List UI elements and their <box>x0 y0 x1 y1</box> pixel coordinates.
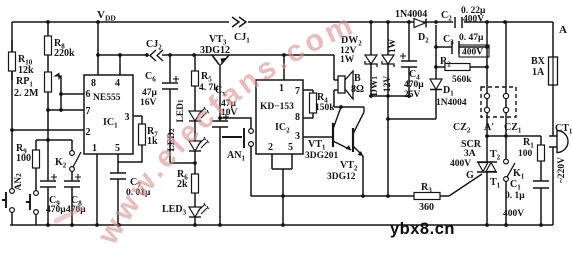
wire RP1 wiper to pins 6,7 <box>59 76 63 112</box>
wire R9-K2 link <box>36 139 72 141</box>
label CZ2 <box>453 122 471 135</box>
node bottom rail junction dots <box>46 223 543 227</box>
label T1 <box>490 177 501 190</box>
capacitor Cx <box>212 64 238 225</box>
svg-text:25V: 25V <box>404 90 421 100</box>
diode D2 <box>395 9 429 45</box>
svg-text:5: 5 <box>288 142 293 153</box>
svg-text:A′: A′ <box>484 122 494 133</box>
svg-text:C3: C3 <box>443 34 454 47</box>
svg-text:R2: R2 <box>440 56 451 69</box>
wire fuse to plug <box>552 85 554 136</box>
relay contact CJ2 <box>146 39 163 61</box>
wire LED1-LED2 <box>194 121 196 141</box>
svg-text:C1: C1 <box>510 179 521 192</box>
wire top rail (right of CJ1) <box>248 21 553 23</box>
svg-text:CJ1: CJ1 <box>234 32 250 45</box>
svg-text:ybx8.cn: ybx8.cn <box>390 220 455 238</box>
wire IC2 pins 2,5 to ground line <box>272 154 292 225</box>
svg-text:D1: D1 <box>443 85 454 98</box>
wire VDD drop to IC1 pin8 <box>97 22 99 75</box>
svg-text:BX: BX <box>531 56 546 67</box>
svg-text:5: 5 <box>115 143 120 154</box>
switch K1 <box>504 159 525 225</box>
svg-text:R5: R5 <box>201 71 212 84</box>
svg-text:1: 1 <box>279 83 284 94</box>
resistor R8 <box>45 22 76 59</box>
wire A-prime line <box>487 136 541 145</box>
svg-text:2: 2 <box>268 142 273 153</box>
svg-text:1N4004: 1N4004 <box>436 98 467 108</box>
svg-text:VDD: VDD <box>97 9 116 23</box>
svg-text:RP1: RP1 <box>16 76 33 89</box>
wire top VDD rail (left of CJ1) <box>12 21 229 23</box>
svg-text:1W: 1W <box>340 55 355 65</box>
svg-text:8: 8 <box>91 78 96 89</box>
svg-text:VT1: VT1 <box>308 139 326 152</box>
capacitor C4 <box>400 22 424 100</box>
wire RP1 column down to C9 <box>46 110 50 225</box>
svg-text:470μ: 470μ <box>46 205 66 215</box>
wire zener-C4 bottom bar <box>369 94 411 98</box>
transistor VT3 <box>200 34 230 65</box>
watermark tail stroke <box>56 208 82 221</box>
svg-text:DW1: DW1 <box>370 76 380 96</box>
resistor R7 <box>118 116 158 162</box>
label A-prime <box>484 122 494 133</box>
label T2 <box>490 149 501 162</box>
transistor VT1 <box>305 107 351 161</box>
capacitor C2 <box>441 6 486 29</box>
triac SCR <box>450 139 497 181</box>
wire socket right column <box>504 22 508 159</box>
svg-text:NE555: NE555 <box>93 93 121 103</box>
svg-text:CZ2: CZ2 <box>453 122 471 135</box>
resistor R10 <box>9 40 35 80</box>
resistor R9 <box>16 140 40 189</box>
wire IC1 pin1 to ground <box>96 154 98 225</box>
svg-text:12V: 12V <box>383 76 393 93</box>
wire IC2 pin1 drop <box>283 55 285 80</box>
op-amp IC1 NE555 box <box>84 75 133 154</box>
svg-text:~220V: ~220V <box>557 157 567 183</box>
pushbutton AN1 <box>218 116 253 196</box>
svg-text:560k: 560k <box>452 75 472 85</box>
svg-text:12k: 12k <box>18 65 34 76</box>
svg-text:150k: 150k <box>315 103 335 113</box>
transistor VT2 <box>327 107 364 182</box>
svg-text:AN1: AN1 <box>227 150 245 163</box>
wire D1 to DW column <box>388 90 436 119</box>
svg-text:VT2: VT2 <box>340 160 358 173</box>
svg-text:470μ: 470μ <box>404 80 424 90</box>
svg-text:LED3: LED3 <box>162 204 187 217</box>
wire LED3 to ground <box>194 217 196 225</box>
wire R6-LED3 <box>194 193 196 207</box>
svg-text:B: B <box>354 73 361 84</box>
svg-text:100: 100 <box>518 149 533 159</box>
svg-text:4: 4 <box>115 78 120 89</box>
socket dashed box <box>481 87 516 117</box>
wire plug to ground rail <box>552 147 554 225</box>
svg-text:6: 6 <box>86 89 91 100</box>
diode D1 <box>430 79 467 108</box>
LED LED1 <box>176 99 209 123</box>
LED LED3 <box>162 203 209 217</box>
svg-text:1: 1 <box>92 143 97 154</box>
wire LED2 to R6 node <box>193 151 197 174</box>
wire rail-2 corner to speaker <box>334 55 338 107</box>
svg-text:400V: 400V <box>462 48 483 58</box>
wire collectors node to speaker <box>334 105 364 109</box>
resistor R4 <box>303 90 335 118</box>
svg-text:2: 2 <box>86 127 91 138</box>
zener DW1 <box>370 22 398 96</box>
svg-text:8Ω: 8Ω <box>351 84 364 95</box>
svg-text:3DG12: 3DG12 <box>327 172 356 182</box>
svg-text:KD−153: KD−153 <box>260 102 294 112</box>
svg-text:CT1: CT1 <box>555 123 572 136</box>
watermark ybx8 <box>390 220 455 238</box>
svg-text:C6: C6 <box>145 71 156 84</box>
potentiometer RP1 <box>14 55 61 110</box>
svg-text:220k: 220k <box>54 48 75 59</box>
svg-text:400V: 400V <box>450 159 471 169</box>
wire left edge column upper <box>11 22 13 189</box>
capacitor C9 <box>40 174 66 215</box>
wire rail-2 switched supply <box>96 53 334 57</box>
wire triac to ground <box>486 172 488 225</box>
resistor R3 <box>414 182 440 213</box>
resistor R6 <box>177 169 199 193</box>
svg-text:2k: 2k <box>177 179 188 190</box>
svg-text:0. 47μ: 0. 47μ <box>459 33 484 43</box>
wire IC1 pin6 lead <box>61 93 84 95</box>
svg-text:C2: C2 <box>441 10 452 23</box>
svg-text:400V: 400V <box>503 209 524 219</box>
capacitor C7 <box>110 154 151 225</box>
svg-text:8: 8 <box>295 112 300 123</box>
svg-text:T2: T2 <box>490 149 501 162</box>
zener DW2 <box>340 22 377 96</box>
relay contact CJ1 <box>232 17 250 45</box>
wire IC1 pin4 drop <box>118 53 122 75</box>
svg-text:1N4004: 1N4004 <box>395 9 427 20</box>
svg-text:16V: 16V <box>140 98 157 108</box>
svg-text:T1: T1 <box>490 177 501 190</box>
svg-text:G: G <box>466 170 474 181</box>
svg-text:K2: K2 <box>55 157 67 170</box>
svg-text:2. 2M: 2. 2M <box>14 88 39 99</box>
wire DW column to gate line <box>386 96 390 198</box>
svg-text:R3: R3 <box>421 182 432 195</box>
svg-text:1W: 1W <box>388 38 398 53</box>
op-amp IC2 KD-153 box <box>256 80 303 154</box>
wire right edge top <box>552 22 554 57</box>
socket contacts CZ <box>484 93 508 112</box>
label VDD <box>97 9 116 23</box>
svg-text:R1: R1 <box>523 137 534 150</box>
svg-text:0. 1μ: 0. 1μ <box>505 191 525 201</box>
label CZ1 <box>504 122 522 135</box>
wire socket left column <box>485 99 489 162</box>
svg-text:CZ1: CZ1 <box>504 122 522 135</box>
svg-text:D2: D2 <box>418 32 429 45</box>
wire IC2 pin3 to VT1 base <box>303 136 332 138</box>
resistor R5 <box>192 55 220 111</box>
svg-text:47μ: 47μ <box>142 88 158 98</box>
pushbutton AN2 <box>2 173 38 225</box>
svg-text:7: 7 <box>295 86 300 97</box>
speaker B <box>338 71 364 99</box>
resistor R2 <box>436 56 487 85</box>
plug CT1 <box>549 123 572 183</box>
wire C2-C3-R2 right column <box>485 22 489 94</box>
switch K2 <box>55 140 81 171</box>
label A <box>559 24 567 36</box>
watermark elecfans <box>91 7 400 255</box>
fuse BX <box>531 56 558 85</box>
wire bottom ground rail <box>10 224 553 226</box>
LED LED2 <box>167 128 209 152</box>
wire trigger line <box>251 194 449 198</box>
svg-text:3A: 3A <box>464 149 476 159</box>
wire IC1 pin2 lead <box>10 128 84 132</box>
svg-text:CJ2: CJ2 <box>146 39 162 52</box>
svg-text:3: 3 <box>125 112 130 123</box>
wire VT2 emitter drop <box>362 156 364 196</box>
wire IC1 pin7 lead <box>46 108 84 112</box>
svg-text:100: 100 <box>16 153 31 164</box>
capacitor C6 <box>140 55 195 163</box>
capacitor C1 <box>503 161 549 225</box>
node top-rail junction dots <box>46 20 507 24</box>
svg-text:7: 7 <box>86 106 91 117</box>
wire gate diagonal <box>449 174 482 196</box>
capacitor C8 <box>64 171 86 225</box>
svg-text:3DG201: 3DG201 <box>305 151 339 161</box>
svg-text:400V: 400V <box>463 15 484 25</box>
resistor R1 <box>518 137 545 161</box>
svg-text:A: A <box>559 24 567 36</box>
capacitor C3 <box>436 33 489 58</box>
svg-text:1A: 1A <box>532 67 545 78</box>
svg-text:3: 3 <box>295 131 300 142</box>
svg-text:360: 360 <box>419 202 434 213</box>
svg-text:AN2: AN2 <box>14 173 24 191</box>
wire D2-C3-R2 left column <box>434 25 438 79</box>
svg-text:3DG12: 3DG12 <box>200 45 230 56</box>
